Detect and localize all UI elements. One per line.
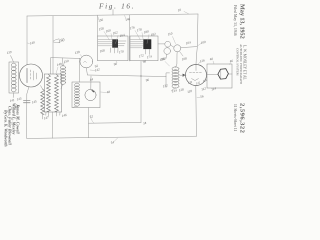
motor box M1 [72,82,100,108]
wire stub at node 166 [166,73,170,88]
label 92 below box [94,64,99,69]
tube V1 cathode bar [26,69,28,83]
label 178 [136,27,142,32]
relay K1 armature blob [112,39,118,47]
relay K2 armature blob [143,39,151,49]
svg-text:11 Sheets-Sheet 11: 11 Sheets-Sheet 11 [233,104,237,131]
label 112 [201,86,207,91]
label 58 at corner [143,121,147,126]
buzzer lower tail [165,55,168,59]
relay K2 lower contact ticks [145,49,149,54]
component box U3 [207,64,232,88]
grid resistor rectangle [9,62,19,93]
label 138 with leader [74,50,80,55]
label 174 below blob [146,54,152,59]
buzzer double circle [165,41,171,47]
label 170 inside box [118,49,124,54]
R2 top lead [41,86,43,90]
label 40 [209,57,214,62]
rectangle top hook [11,56,14,63]
label 108 [181,56,187,61]
label 44 [89,77,94,82]
relay K1 contact lines [98,40,112,46]
grid resistor coil inside [11,63,16,67]
coil L2 bottom tail [171,87,175,91]
svg-text:By Geo. K. Woodworth: By Geo. K. Woodworth [3,109,7,147]
coil L2 [172,67,179,71]
label 146b below bank [61,113,67,118]
label 146 on top wire [125,17,131,22]
label 102 [160,56,166,61]
relay K2 contact lines [130,40,143,48]
rectangle bottom tail [12,93,14,98]
tube V1 envelope [20,64,43,87]
label 130 [159,57,165,62]
label 56 with leader [200,94,205,99]
lamp circle [174,45,181,52]
capacitor C1 plates [24,100,31,102]
lamp lower lead [180,52,183,57]
label 52 with leader [89,114,94,119]
label 145 [31,99,37,104]
label 158 [98,26,104,31]
label 156 on top wire [98,18,104,23]
wire vertical K2 to lower corner [140,61,142,123]
label 104 [185,40,191,45]
label 148 with leader [56,62,62,67]
label 172 below blob [138,53,144,58]
tube V2 plate lead down to bus [195,86,198,137]
pilot lamp filament mark [84,62,87,63]
wire mid horizontal node 96 [88,75,167,77]
label 140 with leader [29,40,35,45]
wire vertical under motor box [88,108,90,138]
label 134 [171,88,177,93]
motor field coil [75,83,80,87]
label 110 with leader [167,31,173,36]
wire lower corner horizontal [89,122,142,125]
coil L1 [61,66,66,70]
coil L1 bottom tail [61,84,63,89]
svg-text:Fig. 16.: Fig. 16. [98,3,135,11]
label 182 [150,32,156,37]
label 100 at right vertical [200,40,206,45]
R2 bottom tail [41,114,43,119]
wire left vertical to tube V1 [26,16,28,65]
wire vertical to relay box K1 [97,15,99,36]
lamp bottom lead to coil L2 [176,52,178,67]
tube V2 cathode [192,65,199,81]
relay K1 box [98,36,129,61]
label 46 [229,59,234,64]
label 160 [105,28,111,33]
pilot lamp bottom lead [86,68,87,75]
relay K1 lower contact ticks [110,48,118,53]
label 48 with leader [106,90,111,95]
label 128 [178,87,184,92]
wire right vertical to tube V2 [196,14,198,64]
wire vertical into motor box top [79,58,81,82]
junction dot [140,75,141,76]
label 54 with leader [110,140,115,145]
label 143b [14,104,20,109]
leader from title to top wire [112,10,114,15]
wire lamp to right vertical [181,47,197,48]
hexagon inner electrode [220,71,222,78]
label 150b arrow at feed wire [58,37,66,44]
label 120 122 124 under tube [187,78,208,86]
label 142 with leader [94,67,100,72]
bank winding right [55,75,59,112]
label 139 [6,50,12,55]
pilot lamp circle [80,55,93,68]
wire from K2 to buzzer [158,43,165,45]
label 90 below box [113,62,118,67]
wire upper branch [51,57,80,60]
tube V2 grid dashes [190,72,202,74]
relay K1 right contact stubs [118,41,126,46]
label 96 [145,78,150,83]
label 168 inside box [99,48,105,53]
label 114 [211,86,217,91]
hexagon crystal [218,69,229,79]
label 10 above top wire [177,8,182,13]
svg-text:May 13, 1952: May 13, 1952 [238,4,245,39]
label 126 with leader [199,58,205,63]
motor coil bottom tail [74,106,78,108]
wire bottom bus [27,136,197,138]
label 162 [112,30,118,35]
label 150 with leader [63,59,69,64]
label 141 [9,98,15,103]
grid arrow into tube V2 [183,74,186,77]
wire vertical feed to resistor bank [52,16,54,74]
tube V2 envelope [186,65,207,86]
tube V1 plate mark [36,73,38,79]
label 147 [43,115,49,120]
tube V1 bottom lead [27,87,29,139]
wire short vertical at 50.5 [50,58,52,74]
relay K2 box [130,36,158,61]
svg-text:2,596,322: 2,596,322 [238,103,245,134]
figure title Fig.16 [98,3,135,11]
svg-text:CONTROL SYSTEM: CONTROL SYSTEM [235,48,239,76]
label 164 [119,33,125,38]
wire tube V2 to hexagon [207,73,233,75]
motor stem to wire [90,76,92,89]
resistor bank frame [45,74,62,112]
wire vertical between relay boxes [128,15,130,61]
cathode resistor R2 zigzag [41,89,45,115]
wire bank bottom to bus [52,112,54,138]
motor brush mark [92,91,94,93]
bank bottom ticks [46,112,60,116]
label 180 [143,29,149,34]
wire top bus [27,14,198,16]
label 98 right of box [142,59,147,64]
tube V1 grid dashes [31,70,34,80]
label 176 [129,25,135,30]
label 118 [187,89,193,94]
wire coil L2 to tube V2 grid [180,74,186,76]
bank winding left [47,75,51,112]
motor rotor circle [85,89,96,100]
label 143 [16,96,22,101]
wire buzzer to lamp [171,45,174,47]
coil L1 top lead [62,58,64,67]
label 132 [162,83,168,88]
